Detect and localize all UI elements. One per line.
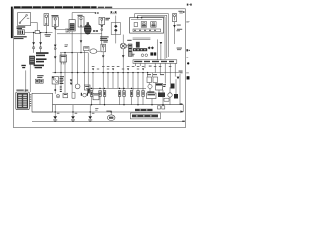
connector rings on pair <box>32 47 41 49</box>
top right connector labels <box>176 25 182 50</box>
right solid box <box>171 84 175 89</box>
wires resistors to lower line <box>92 96 144 104</box>
arrow below fuse lower <box>102 55 105 58</box>
bus junction dots lower lines <box>55 104 164 113</box>
wire fuse GAUGE down <box>101 25 103 45</box>
junction dots mid wire <box>64 52 81 53</box>
label block right 2 <box>36 58 47 62</box>
junction dots meter top <box>137 17 143 19</box>
right circle sensor <box>148 84 152 88</box>
igniter cluster rails <box>133 38 151 39</box>
ground 1 <box>53 105 59 122</box>
low narrow box <box>72 93 75 99</box>
igniter dark band <box>133 48 147 51</box>
wire fuse IGN down <box>80 27 82 53</box>
igniter side label <box>132 54 135 57</box>
low marks <box>81 93 88 96</box>
ECM connector label <box>16 90 28 91</box>
title text <box>14 6 97 8</box>
right edge vertical <box>182 105 184 112</box>
section tab black bar <box>11 7 13 38</box>
small marks left of label <box>21 65 25 68</box>
fuse EFI label <box>51 15 58 16</box>
wire battery bus <box>25 26 53 33</box>
page ref A-A label top left of meter <box>95 12 99 14</box>
right low solid <box>174 94 178 99</box>
label block right 1 <box>36 52 49 56</box>
wire lamp <box>122 35 124 72</box>
gauge 2 <box>151 22 156 28</box>
label block small <box>37 75 43 78</box>
ECM connector block <box>16 92 31 110</box>
bottom right connector stubs <box>180 103 185 122</box>
ECM top line <box>86 87 146 89</box>
right vertical wires <box>135 63 180 104</box>
right dark-top box <box>156 84 163 91</box>
fuse GAUGE <box>99 17 105 24</box>
page ref 3-3 label <box>110 11 117 14</box>
connector on wire near ECM <box>54 89 56 91</box>
fuse lower <box>101 44 106 52</box>
EFI relay 2 box <box>52 77 58 84</box>
low labeled box <box>93 93 99 99</box>
ignition coil dark <box>126 44 132 56</box>
mid horizontal wire <box>60 52 88 54</box>
connector marks below fuse GAUGE <box>101 25 104 28</box>
fusible link <box>35 31 40 34</box>
stacked connectors in sub box <box>114 25 117 32</box>
label above fuse 4 <box>100 36 108 42</box>
wire ignition to fusible link <box>31 22 38 30</box>
relay 2 label <box>60 76 64 84</box>
junction dots on battery bus <box>33 32 47 33</box>
label block lower-left <box>34 65 44 69</box>
fuse EFI <box>52 17 58 27</box>
ECM bottom line <box>53 104 184 106</box>
vertical wires bus to ECM <box>55 73 143 94</box>
connector arrows on pair <box>32 42 42 45</box>
oval sensor <box>90 49 100 54</box>
connector arrow on EFI wire <box>54 40 82 59</box>
right low dark box <box>158 93 165 98</box>
noise filter box <box>84 47 89 51</box>
wires to starter pair <box>34 33 41 53</box>
gauge 1 <box>141 22 146 28</box>
wire J/B <box>55 27 65 73</box>
connector pair on battery bus <box>45 34 51 37</box>
wire fuse lower to bus <box>102 52 104 72</box>
right margin marks <box>186 4 192 80</box>
distributor box <box>60 55 67 64</box>
meter internal wire <box>131 19 162 21</box>
igniter dark bars <box>136 42 140 48</box>
main fuse <box>44 14 49 26</box>
arrow on top right wire <box>173 25 176 28</box>
page frame <box>14 9 186 128</box>
starter relay block <box>30 56 35 64</box>
connector on feed wire <box>93 30 98 32</box>
right marks <box>163 84 166 87</box>
check connector dark boxes <box>150 52 156 55</box>
low small box 1 <box>63 93 68 98</box>
ECM body box <box>32 93 53 112</box>
small arrows above bus <box>92 68 144 70</box>
harness label bar <box>135 109 153 111</box>
connector below fuse EFI <box>54 27 57 30</box>
ECM left connector mark <box>87 89 89 94</box>
floating wire labels center <box>65 45 69 47</box>
right low components <box>147 91 157 98</box>
EFI main relay <box>69 20 75 31</box>
wire labels above lower line <box>95 108 98 110</box>
top right wire label B-R <box>178 11 185 14</box>
main horizontal bus <box>53 72 180 74</box>
fuel pump oval <box>107 112 115 120</box>
ignition switch SW box <box>18 13 31 26</box>
right cluster small boxes <box>147 77 158 83</box>
igniter terminal circles <box>141 54 147 57</box>
small label right of lamp <box>127 40 131 41</box>
left harness label <box>14 36 27 39</box>
sensor circle low <box>75 84 80 89</box>
lower feed wire <box>57 33 102 35</box>
ground 2 <box>71 105 77 122</box>
connector boxes pair <box>35 79 43 83</box>
injector resistors row <box>90 91 144 97</box>
low cluster components <box>56 95 59 98</box>
meter small square <box>134 23 138 27</box>
ignition switch label <box>17 26 26 29</box>
sub J/B box <box>111 23 120 35</box>
diamond connectors right of igniter <box>148 46 154 49</box>
ground bus line <box>32 121 185 123</box>
battery <box>18 30 25 35</box>
small box above lower line right <box>164 98 169 101</box>
resistor internals <box>91 92 144 96</box>
legend box <box>130 113 160 119</box>
fuel pump label <box>106 111 111 112</box>
wire color marks above bus <box>92 66 172 70</box>
wire relay top bus <box>72 13 95 20</box>
wires down to ECM connector <box>26 64 30 92</box>
meter bottom bar <box>133 29 161 32</box>
ground 3 <box>88 105 94 122</box>
labels above right boxes <box>147 73 164 76</box>
arrows center low <box>70 79 73 85</box>
J/B dashed box <box>66 28 71 32</box>
instrument panel bar <box>133 60 177 64</box>
wire through sub box <box>115 16 117 44</box>
igniter arrow <box>160 42 163 45</box>
fuse GAUGE label <box>105 18 110 21</box>
right arrow <box>177 77 180 80</box>
combination meter box <box>130 18 164 34</box>
label above fuse IGN <box>77 15 82 16</box>
alternator <box>84 22 91 34</box>
bus junction dots <box>55 72 149 73</box>
lower long line <box>32 111 183 113</box>
small connector boxes on lower line <box>158 106 165 109</box>
top right fuse <box>173 14 177 22</box>
fuse IGN <box>78 17 84 27</box>
center vertical wires upper band <box>61 31 88 73</box>
arrow below lamp <box>122 55 125 58</box>
marks left low <box>60 86 62 92</box>
lamp bulb <box>120 43 126 49</box>
small box low <box>84 85 90 90</box>
right edge connectors <box>179 71 183 74</box>
igniter wires right <box>157 39 161 59</box>
right low circle <box>168 93 172 97</box>
ring connector on EFI wire <box>54 48 56 50</box>
ECM junction dots <box>91 88 132 89</box>
combination meter bus wires <box>135 14 169 59</box>
low circle 2 <box>83 93 87 97</box>
wire from top right fuse <box>174 22 176 44</box>
